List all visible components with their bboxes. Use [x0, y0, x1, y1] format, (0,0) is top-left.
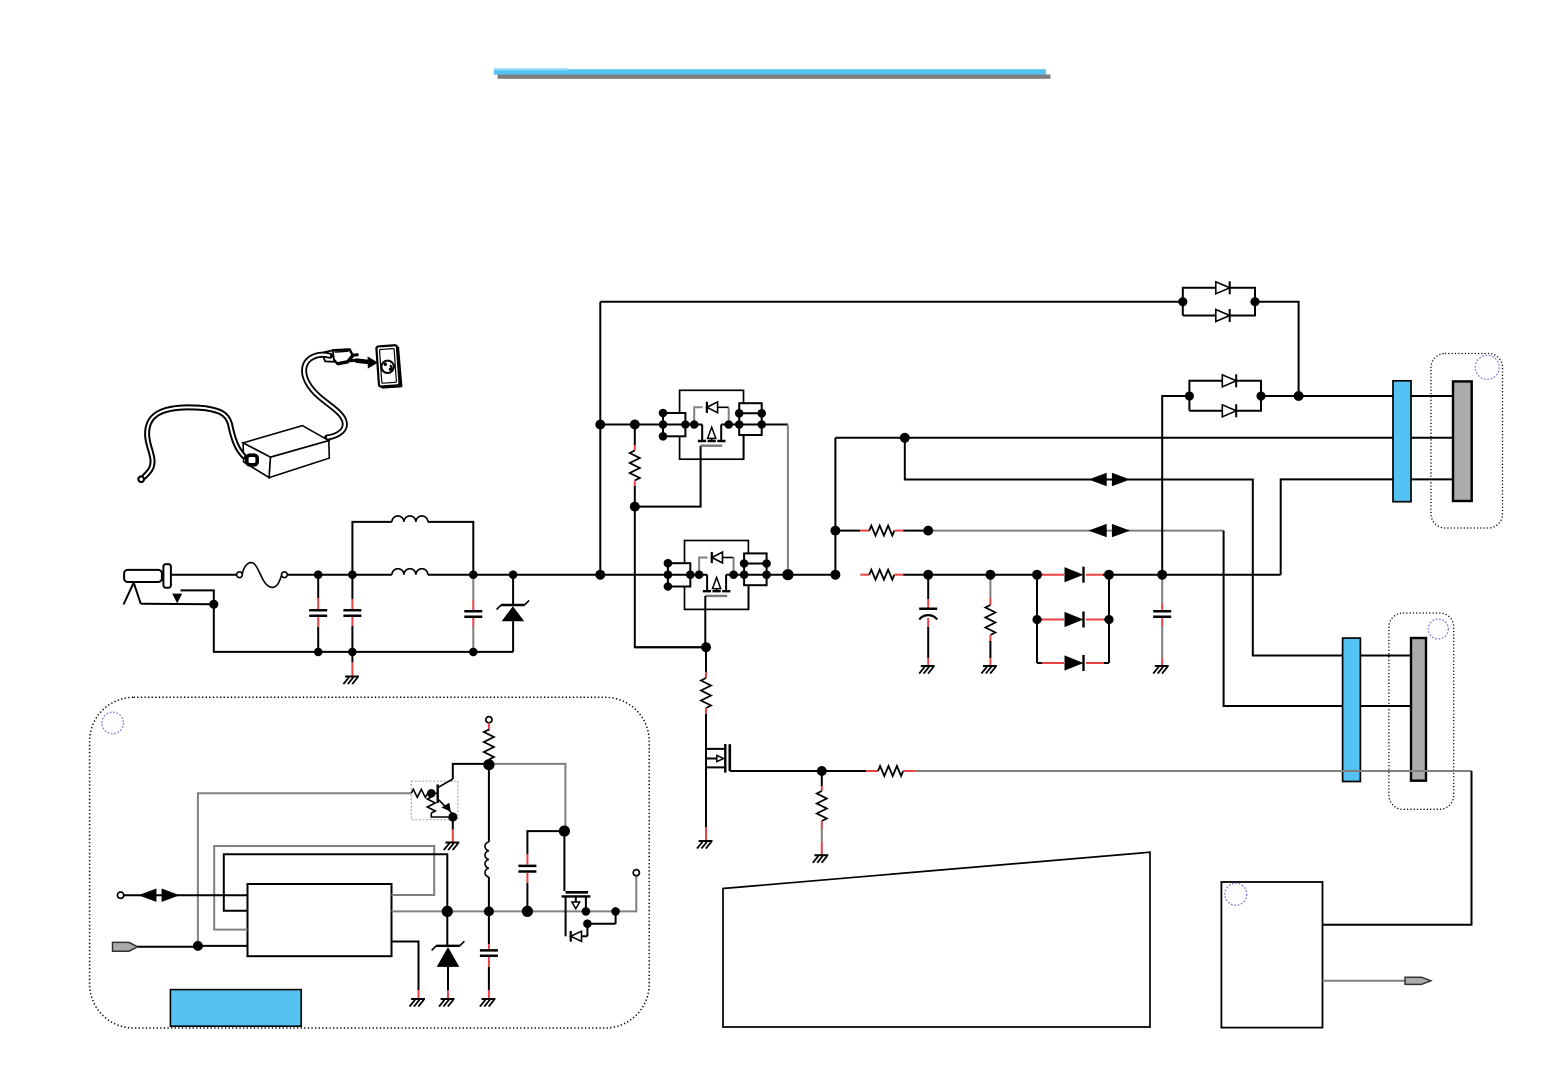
bidirectional arrow 1 [1089, 473, 1131, 486]
wire bias node right [489, 764, 566, 831]
battery 2 pin wires [1360, 656, 1411, 707]
body diode [694, 407, 702, 424]
capacitor C3 [464, 575, 482, 652]
resistor R4 [985, 575, 995, 666]
transistor Q3 N-MOSFET [706, 740, 730, 841]
capacitor C1 [309, 575, 327, 652]
gate plate [705, 595, 727, 597]
switch arrow [172, 594, 182, 604]
wire lug to IC [138, 945, 248, 948]
dc cord from brick [138, 407, 244, 482]
node B [595, 570, 605, 580]
wire sense riser [834, 438, 836, 575]
capacitor C5 [1153, 575, 1171, 666]
wire sleeve down to bottom rail [214, 604, 513, 652]
wire feedback loop outer [214, 846, 434, 930]
mains plug [322, 349, 359, 363]
connector J1 barrel jack [124, 564, 171, 604]
pin dots [659, 409, 668, 418]
part number plate [170, 990, 301, 1027]
wire bias node left [453, 764, 489, 779]
node sleeve junction [209, 600, 218, 609]
wire vertical feed [599, 302, 601, 575]
wire IC out [392, 910, 448, 912]
node label circle 1 [1475, 355, 1499, 379]
channel [702, 425, 721, 442]
wire Q2 output to rail node [767, 574, 836, 576]
node dots input [314, 570, 323, 579]
gate plate [700, 445, 722, 447]
wire pair1 to pair2 [1255, 302, 1299, 396]
wedge panel [723, 852, 1150, 1027]
optocoupler PC1 [411, 779, 458, 822]
wire data line 1 [905, 438, 1343, 656]
probe lug 2 [113, 942, 138, 951]
diode D3 [1032, 575, 1113, 663]
battery pack 1 outline [1431, 354, 1503, 529]
fuse F1 [237, 563, 288, 588]
resistor R6 [817, 771, 827, 855]
battery pack 2 outline [1389, 613, 1454, 809]
node D [900, 433, 910, 443]
title bar [494, 68, 1051, 79]
insert arrow [356, 356, 378, 368]
inductor L1 top winding [352, 516, 473, 575]
node label circle 2 [1428, 619, 1448, 639]
IC U1 [248, 884, 392, 956]
wire sense bus top [835, 437, 1393, 439]
wire control test lead [1323, 980, 1407, 982]
resistor R5 [635, 647, 711, 740]
wire rail to Q2 [600, 574, 668, 576]
diode pair D5 D6 [1178, 281, 1259, 322]
battery cell 2 [1411, 638, 1426, 781]
diode D4 [1037, 655, 1109, 671]
diode pair D7 D8 [1185, 374, 1266, 417]
inductor L1 bottom winding [392, 569, 428, 575]
wire Q2 gate drop [704, 596, 706, 647]
terminal T2 [486, 717, 492, 723]
wire IC ground pin [392, 942, 419, 991]
capacitor C4 electrolytic [919, 575, 937, 666]
wire jack sleeve contact [141, 603, 214, 605]
control board box [1221, 882, 1322, 1028]
wire M1 drain rail [600, 424, 663, 426]
probe lug 1 [1405, 977, 1431, 984]
wire rail diode to cap [1109, 574, 1281, 576]
wire feedback loop inner [224, 854, 447, 911]
main output wire [447, 876, 636, 912]
wire opto emitter ground [452, 817, 454, 830]
capacitor C2 [343, 575, 361, 652]
capacitor C7 [480, 911, 498, 998]
capacitor C6 [518, 831, 564, 911]
wire Q1 output down to rail [762, 424, 788, 426]
resistor R1 [630, 425, 640, 507]
resistor R8 [484, 723, 494, 765]
zener D9 [432, 911, 465, 998]
wire opto feed [198, 793, 411, 946]
wire jack tip to fuse [171, 574, 237, 576]
transistor Q1 dual P-MOSFET package [659, 390, 766, 459]
wire rail up to battery pin [1281, 479, 1393, 574]
diode D2 [1037, 567, 1109, 583]
wire rail to zener [473, 574, 600, 576]
wall outlet [376, 345, 402, 388]
transistor Q4 P-MOSFET [562, 831, 620, 942]
pin dots [664, 559, 673, 568]
terminal T3 [633, 870, 639, 876]
resistor R2 [835, 526, 928, 536]
AC adapter illustration [138, 345, 402, 482]
transistor Q2 dual P-MOSFET package [664, 541, 771, 610]
wire gate line to control [915, 770, 1471, 772]
connector CN1 [1393, 381, 1411, 502]
wire fuse to filter [287, 574, 392, 576]
battery cell 1 [1453, 381, 1472, 501]
wire data line 2 [928, 530, 1223, 532]
node A [595, 420, 605, 430]
body diode [699, 558, 707, 575]
bidirectional arrow 2 [1089, 524, 1131, 537]
resistor R3 [860, 570, 1037, 580]
ground input filter [351, 652, 353, 663]
zener TVS D1 [497, 575, 530, 652]
wire pair2 to battery pin1 [1261, 395, 1393, 397]
battery 1 pin wires [1411, 396, 1453, 479]
node label circle 4 [102, 712, 124, 734]
resistor R7 [866, 766, 915, 776]
node label circle 3 [1225, 883, 1247, 905]
wire T1 to IC [124, 894, 248, 896]
wire Q3 gate line [730, 770, 866, 772]
bidirectional arrow 3 [138, 889, 180, 902]
module outline [90, 697, 650, 1028]
adapter brick [243, 426, 329, 478]
wire pair2 left leg [1162, 396, 1189, 575]
wire gate link M1 [635, 446, 706, 648]
inductor L2 [485, 765, 489, 912]
terminal T1 [117, 892, 123, 898]
channel [707, 575, 726, 592]
plug cord to brick [304, 355, 345, 438]
node C main rail junction [782, 569, 793, 580]
wire top bus [600, 301, 1183, 303]
connector CN2 [1343, 638, 1361, 781]
